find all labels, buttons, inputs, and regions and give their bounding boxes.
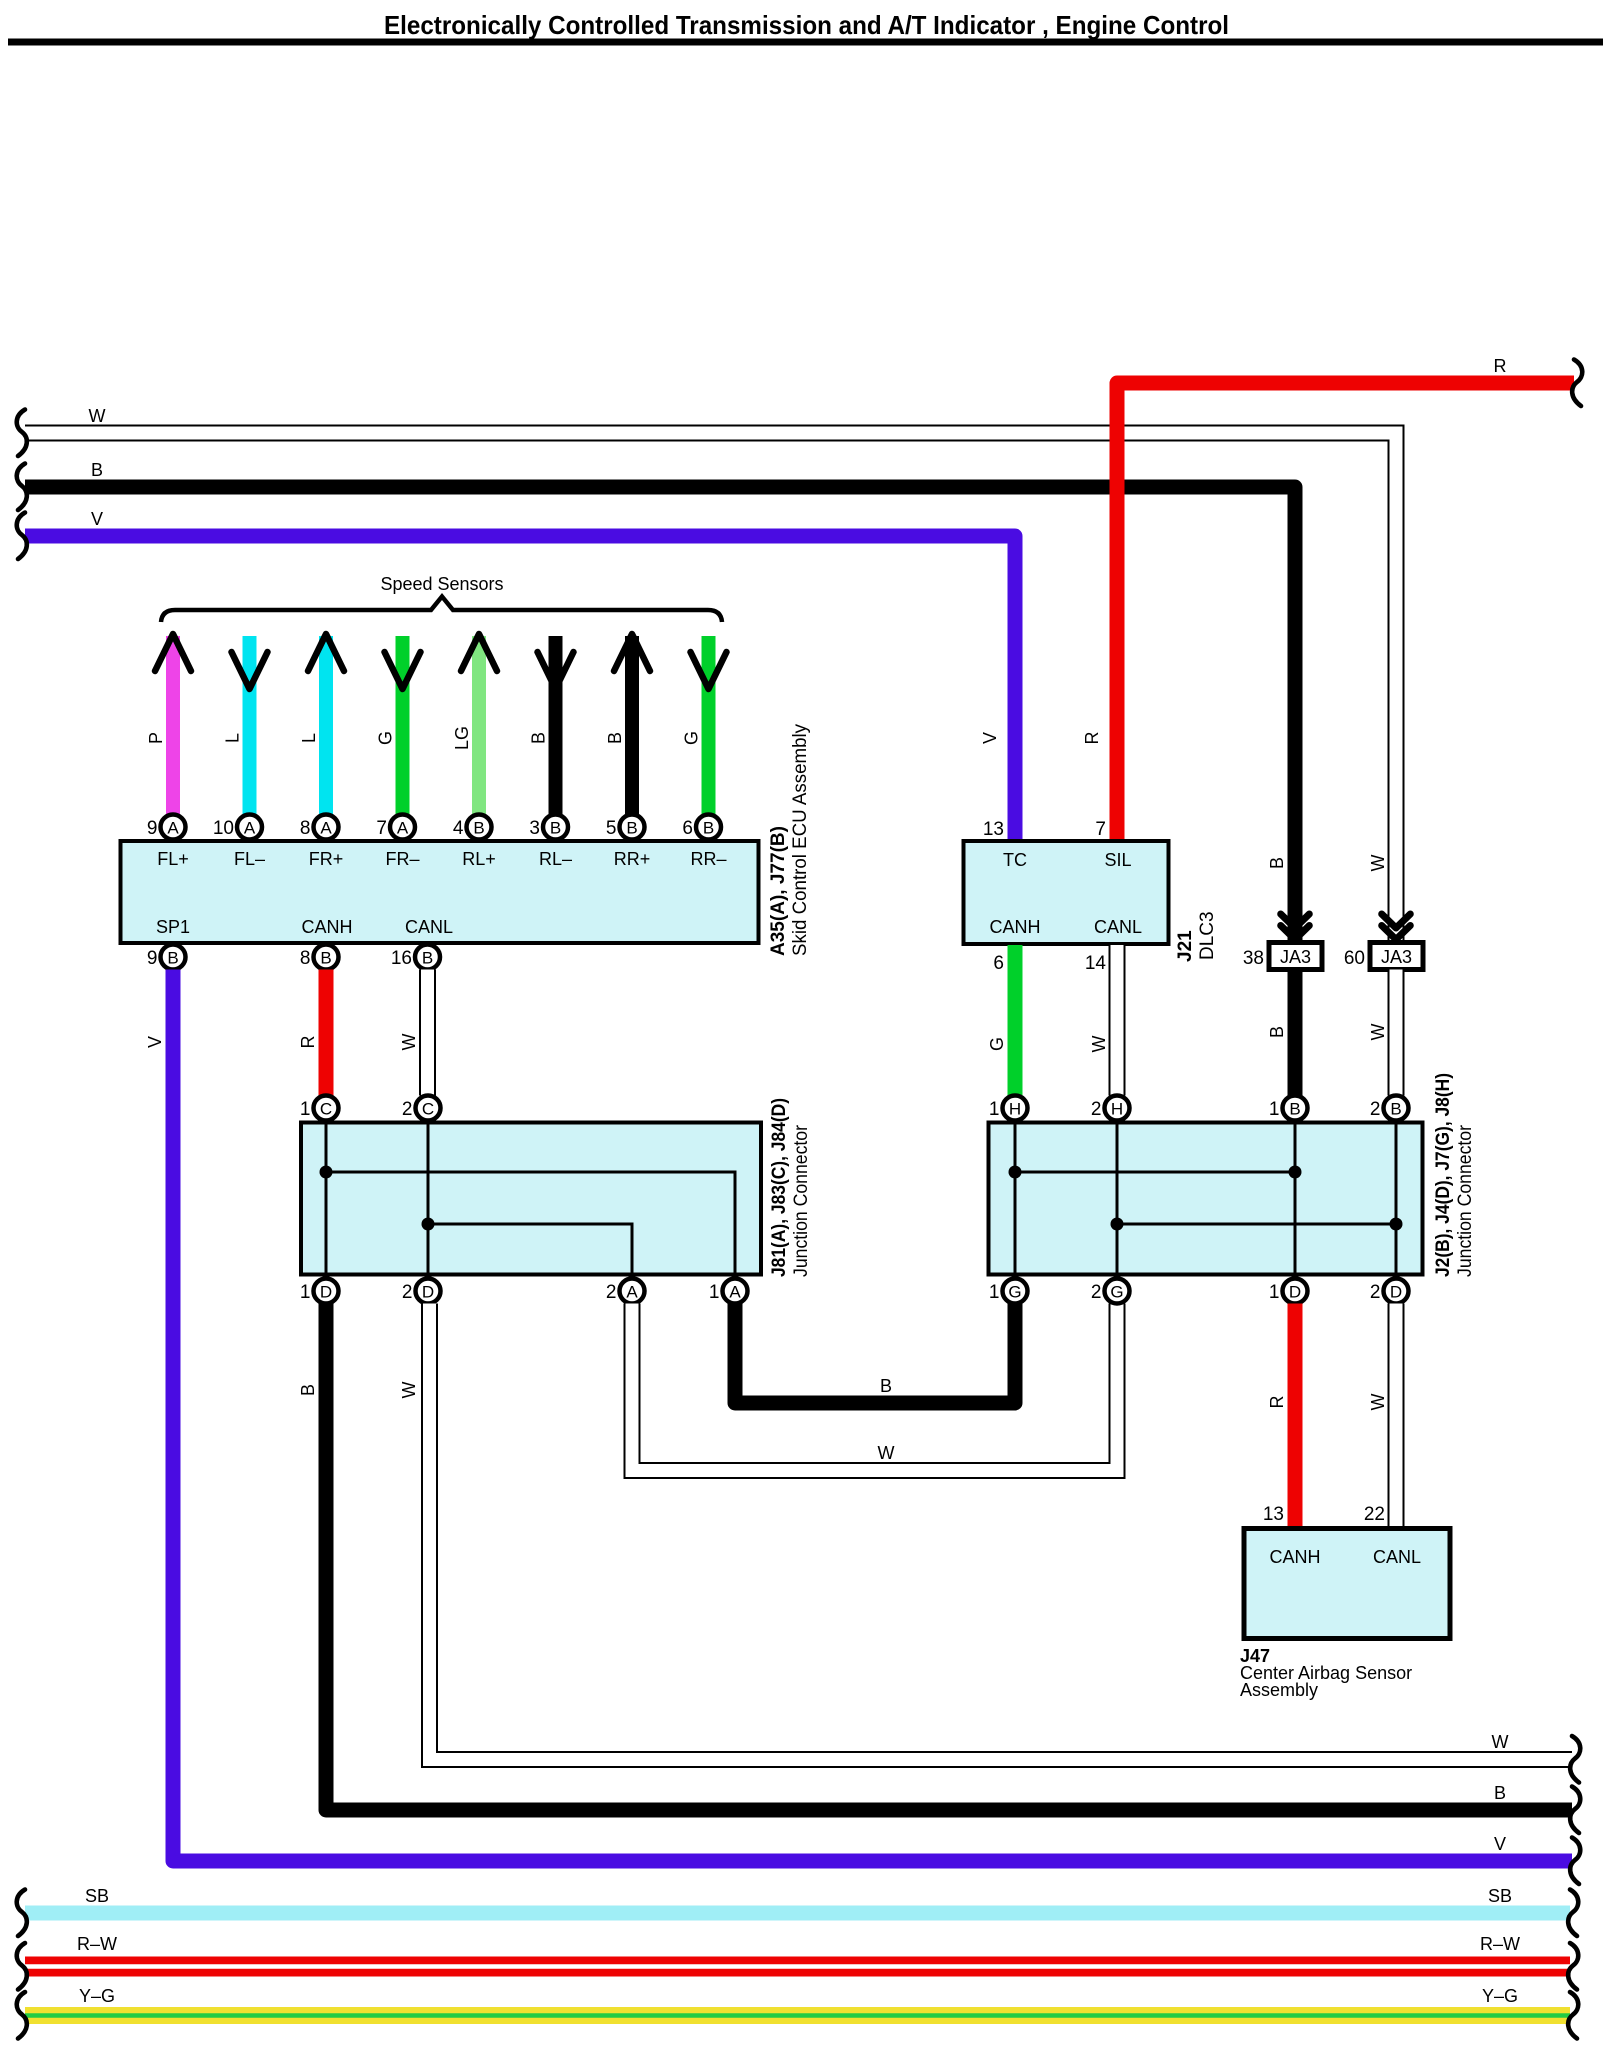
svg-text:R: R	[1082, 732, 1102, 745]
pin 1(G) right junction 1G	[989, 1279, 1028, 1304]
speed sensor wire FL– (L)	[243, 636, 257, 815]
wire R-W (bottom)	[25, 1957, 1570, 1977]
connector A35(A),J77(B) Skid Control ECU Assembly box	[121, 841, 759, 943]
svg-text:C: C	[320, 1100, 332, 1119]
svg-text:L: L	[223, 733, 243, 743]
internal wire 2H-2G vertical	[1116, 1124, 1119, 1273]
junction dot 1B branch	[1289, 1166, 1302, 1179]
svg-text:CANH: CANH	[301, 917, 352, 937]
svg-text:1: 1	[709, 1282, 720, 1303]
wire B from junction 1D to bottom right	[326, 1304, 1572, 1811]
arrow double-chevron into JA3 38	[1281, 914, 1310, 940]
arrow down FR–	[385, 652, 421, 689]
continuation squiggle R top-right	[1572, 360, 1582, 407]
pin 2(C) junction top 2C	[402, 1096, 441, 1121]
continuation squiggle Y-G left	[17, 1992, 27, 2039]
junction dot 2B branch	[1390, 1218, 1403, 1231]
svg-text:B: B	[473, 819, 484, 838]
internal wire 2B-2D vertical	[1395, 1124, 1398, 1273]
svg-text:4: 4	[453, 818, 464, 839]
pin 10(A) ECU FL–	[213, 815, 262, 840]
junction dot at 1C branch	[320, 1166, 333, 1179]
svg-text:8: 8	[300, 818, 311, 839]
continuation squiggle W bottom-right	[1570, 1736, 1580, 1783]
svg-text:TC: TC	[1003, 850, 1027, 870]
pin 2(D) junction bottom 2D	[402, 1279, 441, 1304]
pin 2(G) right junction 2G	[1091, 1279, 1130, 1304]
svg-text:B: B	[167, 949, 178, 968]
svg-text:W: W	[1089, 1036, 1109, 1053]
svg-text:B: B	[1494, 1783, 1506, 1803]
speed sensor wire FL+ (P)	[166, 636, 180, 815]
pin 8(B) ECU CANH	[300, 945, 339, 970]
internal wire 1H-1G vertical	[1014, 1124, 1017, 1273]
pin 16(B) ECU CANL	[391, 945, 440, 970]
connector JA3 (60) box	[1344, 943, 1423, 970]
svg-text:SIL: SIL	[1104, 850, 1131, 870]
svg-text:6: 6	[682, 818, 693, 839]
svg-text:Speed Sensors: Speed Sensors	[380, 574, 503, 594]
internal wire junction to 2A	[428, 1224, 632, 1273]
svg-text:7: 7	[1095, 819, 1106, 840]
svg-text:CANL: CANL	[1094, 917, 1142, 937]
svg-text:B: B	[422, 949, 433, 968]
title rule	[8, 39, 1603, 46]
svg-text:W: W	[1492, 1732, 1509, 1752]
pin 3(B) ECU RL–	[529, 815, 568, 840]
svg-text:V: V	[145, 1036, 165, 1048]
svg-text:B: B	[703, 819, 714, 838]
internal wire 2H to 2B horizontal	[1117, 1223, 1396, 1226]
svg-text:B: B	[1289, 1100, 1300, 1119]
svg-text:G: G	[682, 731, 702, 745]
svg-text:B: B	[550, 819, 561, 838]
wire B from JA3 38 to junction 1B	[1288, 970, 1303, 1096]
svg-text:D: D	[422, 1283, 434, 1302]
pin 9(B) ECU SP1	[147, 945, 186, 970]
svg-text:J2(B), J4(D), J7(G), J8(H): J2(B), J4(D), J7(G), J8(H)	[1433, 1073, 1454, 1277]
continuation squiggle V bottom-right	[1570, 1838, 1580, 1885]
pin 1(D) right junction 1D	[1269, 1279, 1308, 1304]
continuation squiggle R-W left	[17, 1943, 27, 1990]
svg-text:1: 1	[300, 1282, 311, 1303]
wire R from junction 1D to J47 CANH	[1288, 1304, 1303, 1529]
pin 5(B) ECU RR+	[606, 815, 645, 840]
wire B link from 1A to right junction 1G	[735, 1304, 1015, 1404]
connector J47 Center Airbag Sensor Assembly box	[1244, 1529, 1450, 1639]
svg-text:A: A	[729, 1283, 741, 1302]
pin 2(D) right junction 2D	[1370, 1279, 1409, 1304]
arrow up RL+	[461, 634, 497, 671]
svg-text:B: B	[320, 949, 331, 968]
wire V (top horizontal to DLC3 TC)	[25, 536, 1015, 841]
wire SB (bottom)	[25, 1906, 1570, 1921]
junction dot 1H branch	[1009, 1166, 1022, 1179]
internal wire junction to 1A	[326, 1172, 735, 1273]
svg-text:RL+: RL+	[462, 849, 496, 869]
svg-text:RL–: RL–	[539, 849, 572, 869]
svg-text:60: 60	[1344, 948, 1365, 969]
svg-text:V: V	[91, 509, 103, 529]
svg-text:B: B	[1267, 857, 1287, 869]
svg-text:G: G	[1008, 1283, 1021, 1302]
svg-text:2: 2	[606, 1282, 617, 1303]
svg-text:RR+: RR+	[614, 849, 651, 869]
pin 9(A) ECU FL+	[147, 815, 186, 840]
speed sensor wire RR– (G)	[702, 636, 716, 815]
pin 1(A) junction bottom 1A	[709, 1279, 748, 1304]
continuation squiggle SB right	[1568, 1890, 1578, 1937]
svg-text:RR–: RR–	[690, 849, 726, 869]
arrow up FL+	[155, 634, 191, 671]
svg-text:14: 14	[1085, 953, 1107, 974]
svg-text:2: 2	[402, 1099, 413, 1120]
wire B (top horizontal to JA3 38)	[25, 487, 1295, 942]
wire G from DLC3 CANH to junction 1H	[1008, 945, 1023, 1096]
continuation squiggle B bottom-right	[1570, 1787, 1580, 1834]
svg-text:D: D	[1390, 1283, 1402, 1302]
connector J21 DLC3 box	[964, 841, 1169, 944]
internal wire 1B-1D vertical	[1294, 1124, 1297, 1273]
brace speed sensors	[161, 597, 722, 623]
speed sensor wire FR– (G)	[396, 636, 410, 815]
svg-text:P: P	[146, 732, 166, 744]
svg-text:2: 2	[402, 1282, 413, 1303]
svg-text:2: 2	[1370, 1099, 1381, 1120]
svg-text:CANH: CANH	[1269, 1547, 1320, 1567]
svg-text:9: 9	[147, 818, 158, 839]
continuation squiggle SB left	[17, 1890, 27, 1937]
svg-text:C: C	[422, 1100, 434, 1119]
svg-text:CANL: CANL	[1373, 1547, 1421, 1567]
svg-text:B: B	[1267, 1026, 1287, 1038]
svg-text:FL+: FL+	[157, 849, 189, 869]
svg-text:W: W	[399, 1034, 419, 1051]
svg-text:A: A	[244, 819, 256, 838]
svg-text:D: D	[320, 1283, 332, 1302]
svg-text:6: 6	[993, 953, 1004, 974]
arrow double-chevron into JA3 60	[1382, 914, 1411, 940]
arrow up RR+	[614, 634, 650, 671]
svg-text:V: V	[1494, 1834, 1506, 1854]
arrow down RR–	[691, 652, 727, 689]
continuation squiggle Y-G right	[1568, 1992, 1578, 2039]
junction connector J2(B), J4(D), J7(G), J8(H) box	[989, 1123, 1423, 1275]
wire W (top horizontal to JA3 60)	[25, 433, 1396, 942]
svg-text:B: B	[298, 1384, 318, 1396]
svg-text:2: 2	[1091, 1282, 1102, 1303]
svg-text:JA3: JA3	[1280, 947, 1311, 967]
svg-text:G: G	[1110, 1283, 1123, 1302]
pin 1(C) junction top 1C	[300, 1096, 339, 1121]
continuation squiggle W top-left	[17, 410, 27, 457]
continuation squiggle R-W right	[1568, 1943, 1578, 1990]
svg-text:G: G	[376, 731, 396, 745]
svg-text:B: B	[880, 1376, 892, 1396]
svg-text:1: 1	[1269, 1282, 1280, 1303]
svg-text:H: H	[1111, 1100, 1123, 1119]
svg-text:Y–G: Y–G	[1482, 1986, 1518, 2006]
svg-text:L: L	[299, 733, 319, 743]
svg-text:D: D	[1289, 1283, 1301, 1302]
continuation squiggle V top-left	[17, 513, 27, 560]
arrow up FR+	[308, 634, 344, 671]
internal wire 1C-1D vertical	[325, 1124, 328, 1273]
svg-text:13: 13	[1263, 1504, 1284, 1525]
wire W from JA3 60 to junction 2B (white, double line)	[1388, 970, 1405, 1096]
pin 2(H) right junction 2H	[1091, 1096, 1130, 1121]
pin 6(B) ECU RR–	[682, 815, 721, 840]
pin 1(H) right junction 1H	[989, 1096, 1028, 1121]
arrow down RL–	[538, 652, 574, 689]
internal wire 2C-2D vertical	[427, 1124, 430, 1273]
junction dot 2H branch	[1111, 1218, 1124, 1231]
svg-text:1: 1	[989, 1282, 1000, 1303]
svg-text:B: B	[605, 732, 625, 744]
speed sensor wire FR+ (L)	[319, 636, 333, 815]
svg-text:R: R	[298, 1036, 318, 1049]
wire W from junction 2D to J47 CANL (white, double line)	[1388, 1304, 1405, 1529]
arrow down FL–	[232, 652, 268, 689]
svg-text:JA3: JA3	[1381, 947, 1412, 967]
svg-text:Junction Connector: Junction Connector	[1455, 1124, 1476, 1277]
pin 1(B) right junction 1B	[1269, 1096, 1308, 1121]
svg-text:FR+: FR+	[309, 849, 344, 869]
svg-text:38: 38	[1243, 948, 1264, 969]
speed sensor wire RR+ (B)	[625, 636, 639, 815]
wire W from ECU CANL 16B to junction 2C (white, double line)	[419, 970, 436, 1096]
svg-text:CANL: CANL	[405, 917, 453, 937]
svg-text:W: W	[1368, 1024, 1388, 1041]
pin 8(A) ECU FR+	[300, 815, 339, 840]
svg-text:LG: LG	[452, 726, 472, 750]
speed sensor wire RL– (B)	[549, 636, 563, 815]
svg-text:3: 3	[529, 818, 540, 839]
svg-text:B: B	[529, 732, 549, 744]
svg-text:DLC3: DLC3	[1197, 911, 1218, 960]
svg-text:R–W: R–W	[1480, 1934, 1520, 1954]
svg-text:A: A	[397, 819, 409, 838]
connector JA3 (38) box	[1243, 943, 1322, 970]
wire W link from 2A to right junction 2G (white, double line)	[632, 1304, 1117, 1471]
svg-text:FR–: FR–	[385, 849, 419, 869]
svg-text:W: W	[1368, 1394, 1388, 1411]
junction connector J81(A), J83(C), J84(D) box	[301, 1123, 761, 1275]
svg-text:Skid Control ECU Assembly: Skid Control ECU Assembly	[790, 724, 811, 956]
junction dot at 2C branch	[422, 1218, 435, 1231]
speed sensor wire RL+ (LG)	[472, 636, 486, 815]
pin 4(B) ECU RL+	[453, 815, 492, 840]
svg-text:B: B	[91, 460, 103, 480]
svg-text:R: R	[1267, 1396, 1287, 1409]
svg-text:Electronically Controlled Tran: Electronically Controlled Transmission a…	[384, 10, 1229, 40]
svg-text:R–W: R–W	[77, 1934, 117, 1954]
svg-text:SB: SB	[1488, 1886, 1512, 1906]
svg-text:W: W	[1368, 855, 1388, 872]
svg-text:10: 10	[213, 818, 234, 839]
wire Y-G (bottom)	[25, 2007, 1570, 2024]
svg-text:22: 22	[1364, 1504, 1385, 1525]
svg-text:1: 1	[300, 1099, 311, 1120]
svg-text:CANH: CANH	[989, 917, 1040, 937]
svg-text:13: 13	[983, 819, 1004, 840]
svg-text:FL–: FL–	[234, 849, 265, 869]
svg-text:V: V	[980, 732, 1000, 744]
pin 1(D) junction bottom 1D	[300, 1279, 339, 1304]
pin 7(A) ECU FR–	[376, 815, 415, 840]
svg-text:9: 9	[147, 948, 158, 969]
svg-text:Junction Connector: Junction Connector	[791, 1124, 812, 1277]
svg-text:5: 5	[606, 818, 617, 839]
svg-text:16: 16	[391, 948, 412, 969]
svg-text:SB: SB	[85, 1886, 109, 1906]
wire R (top horizontal to DLC3 SIL)	[1117, 383, 1574, 841]
svg-text:2: 2	[1091, 1099, 1102, 1120]
svg-text:8: 8	[300, 948, 311, 969]
svg-text:W: W	[89, 406, 106, 426]
svg-text:W: W	[399, 1382, 419, 1399]
svg-text:1: 1	[989, 1099, 1000, 1120]
svg-text:Y–G: Y–G	[79, 1986, 115, 2006]
svg-text:G: G	[987, 1037, 1007, 1051]
wire W from junction 2D to bottom right (white, double line)	[430, 1304, 1573, 1760]
continuation squiggle B top-left	[17, 464, 27, 511]
svg-text:J81(A), J83(C), J84(D): J81(A), J83(C), J84(D)	[769, 1098, 790, 1277]
wire R from ECU CANH 8B to junction 1C	[319, 970, 334, 1096]
pin 2(A) junction bottom 2A	[606, 1279, 645, 1304]
pin 2(B) right junction 2B	[1370, 1096, 1409, 1121]
svg-text:A: A	[167, 819, 179, 838]
svg-text:2: 2	[1370, 1282, 1381, 1303]
svg-text:SP1: SP1	[156, 917, 190, 937]
wire W from DLC3 CANL to junction 2H (white, double line)	[1109, 945, 1126, 1096]
internal wire 1H to 1B horizontal	[1015, 1171, 1295, 1174]
svg-text:R: R	[1494, 356, 1507, 376]
wire V from ECU SP1 pin 9B to bottom right	[173, 970, 1572, 1862]
svg-text:Assembly: Assembly	[1240, 1680, 1318, 1700]
svg-text:W: W	[878, 1443, 895, 1463]
svg-text:B: B	[626, 819, 637, 838]
svg-text:1: 1	[1269, 1099, 1280, 1120]
svg-text:7: 7	[376, 818, 387, 839]
svg-text:A35(A), J77(B): A35(A), J77(B)	[768, 826, 789, 956]
svg-text:H: H	[1009, 1100, 1021, 1119]
svg-text:A: A	[626, 1283, 638, 1302]
svg-text:B: B	[1390, 1100, 1401, 1119]
svg-text:J21: J21	[1175, 930, 1196, 962]
svg-text:A: A	[320, 819, 332, 838]
